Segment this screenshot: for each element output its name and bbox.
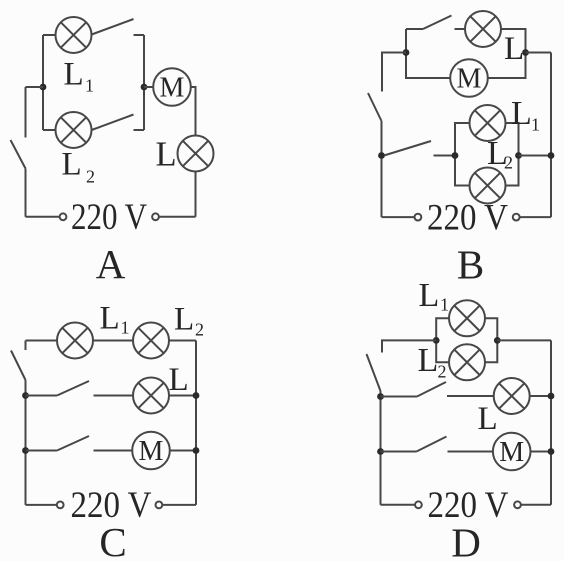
node: left junction	[40, 84, 47, 91]
lamp L	[465, 11, 501, 47]
wire: L1 left lead	[43, 34, 56, 36]
switch S11 blade (lamp L branch, open)	[417, 382, 446, 397]
motor M	[450, 59, 488, 97]
wire: right junction to right rail	[526, 52, 552, 54]
wire: node to main switch corner	[382, 53, 406, 92]
svg-text:L: L	[504, 31, 524, 67]
node: right rail junction	[548, 152, 555, 159]
wire: node down to motor branch	[406, 53, 451, 79]
wire: bottom left rail	[26, 504, 57, 506]
node: right junction	[141, 84, 148, 91]
wire: lamp group left bracket	[455, 123, 470, 186]
wire: left vertical L1-node-L2	[42, 35, 44, 130]
switch S10 blade (main, open)	[367, 354, 381, 391]
wire: lamp group to right rail	[519, 155, 552, 157]
svg-text:220 V: 220 V	[427, 198, 508, 239]
wire: bottom right rail	[521, 504, 551, 506]
svg-text:L: L	[156, 136, 177, 174]
wire: S12 contact to motor	[448, 451, 494, 453]
svg-text:C: C	[99, 519, 126, 561]
wire: left rail down to source	[380, 391, 382, 505]
terminal: source right	[513, 214, 520, 221]
wire: lamp to right corner, down	[501, 29, 526, 53]
node: right rail junction row 3	[548, 448, 555, 455]
svg-text:2: 2	[195, 320, 204, 340]
node: lamp group right junction	[494, 337, 501, 344]
wire: lamp L2 to right rail	[169, 340, 196, 342]
wire: row2 node to switch pivot	[381, 396, 418, 398]
lamp L1	[57, 323, 93, 359]
svg-text:L: L	[418, 342, 439, 379]
lamp L2	[449, 344, 485, 380]
svg-text:M: M	[160, 72, 185, 103]
svg-text:L: L	[100, 301, 120, 337]
node: right rail junction row 3	[193, 447, 200, 454]
node: left rail junction row 2	[377, 393, 384, 400]
wire: S2 fixed contact stub	[134, 129, 145, 131]
wire: row3 node to switch pivot	[26, 450, 58, 452]
wire: left rail down to source	[25, 380, 27, 505]
lamp L2	[470, 168, 506, 204]
terminal: source right	[156, 502, 163, 509]
terminal: source left	[415, 501, 422, 508]
wire: between lamp L1 and L2	[93, 340, 134, 342]
svg-text:1: 1	[85, 76, 94, 96]
wire: main switch down to source	[25, 169, 27, 217]
wire: bottom right rail	[520, 216, 551, 218]
lamp L	[178, 136, 214, 172]
lamp L2	[56, 112, 92, 148]
svg-text:2: 2	[504, 153, 513, 173]
wire: motor to right rail	[170, 450, 197, 452]
wire: lamp group to main switch corner	[382, 340, 436, 352]
svg-text:1: 1	[440, 295, 449, 315]
switch S2 blade (L2 branch, open)	[92, 115, 134, 131]
node: left rail junction row 3	[22, 447, 29, 454]
wire: bottom left rail	[26, 216, 60, 218]
wire: node to motor	[144, 86, 154, 88]
svg-text:1: 1	[121, 318, 130, 338]
wire: row2 node to switch pivot	[26, 395, 58, 397]
wire: main switch upper stub	[25, 341, 27, 351]
wire: bottom right rail	[159, 216, 196, 218]
svg-text:M: M	[499, 437, 524, 468]
node: right rail junction row 2	[548, 393, 555, 400]
motor M	[153, 68, 191, 106]
wire: S8 contact to lamp L	[94, 395, 134, 397]
switch S9 blade (motor branch, open)	[57, 436, 89, 451]
wire: motor to right corner, up	[488, 53, 526, 79]
wire: right rail	[550, 340, 552, 504]
node: lamp group left junction	[433, 337, 440, 344]
wire: motor to right rail	[530, 451, 551, 453]
wire: right rail	[195, 341, 197, 505]
wire: top left corner to lamp L1	[26, 340, 58, 342]
lamp L1	[56, 17, 92, 53]
wire: lamp group right bracket	[505, 123, 518, 186]
wire: lamp L down to source	[195, 171, 197, 217]
switch S6 blade (lamp group branch, open)	[384, 141, 431, 156]
wire: lamp group to right rail	[497, 339, 551, 341]
wire: lamp group right bracket	[485, 318, 498, 362]
wire: S1 fixed contact stub	[134, 34, 145, 36]
node: lamp group left junction	[452, 152, 459, 159]
svg-text:A: A	[96, 241, 126, 287]
terminal: source right	[152, 213, 159, 220]
switch S7 blade (main, open)	[11, 351, 26, 381]
wire: right vertical rail of parallel pair	[143, 35, 145, 130]
motor M	[132, 432, 170, 470]
lamp L	[494, 378, 530, 414]
svg-text:M: M	[457, 63, 482, 94]
wire: node to main switch	[26, 86, 44, 88]
svg-text:L: L	[174, 302, 194, 338]
svg-text:2: 2	[438, 362, 447, 382]
wire: S9 contact to motor	[94, 450, 133, 452]
terminal: source left	[60, 213, 67, 220]
wire: main switch upper stub	[25, 87, 27, 138]
wire: bottom left rail	[381, 504, 416, 506]
svg-text:L: L	[169, 362, 189, 398]
wire: row3 node to switch pivot	[381, 451, 417, 453]
svg-text:2: 2	[86, 167, 95, 187]
terminal: source left	[57, 502, 64, 509]
motor M	[493, 433, 531, 471]
wire: L2 left lead	[43, 129, 56, 131]
lamp L1	[449, 300, 485, 336]
svg-text:L: L	[478, 401, 498, 437]
svg-text:L: L	[62, 147, 82, 183]
node: lamp group right junction	[515, 152, 522, 159]
svg-text:L: L	[64, 57, 84, 93]
wire: node up to top branch	[405, 29, 407, 53]
switch S12 blade (motor branch, open)	[417, 437, 447, 452]
wire: bottom right rail	[162, 504, 196, 506]
switch S5 blade (main, open)	[368, 93, 382, 121]
wire: lamp L to right rail	[529, 395, 551, 397]
wire: right rail	[550, 53, 552, 218]
svg-text:1: 1	[531, 115, 540, 135]
svg-text:M: M	[139, 436, 164, 467]
wire: lamp L to right rail	[169, 395, 196, 397]
node: right rail junction row 2	[193, 392, 200, 399]
svg-text:L: L	[419, 277, 440, 314]
wire: motor to corner and down	[191, 87, 196, 136]
wire: S11 contact to lamp L	[447, 395, 494, 397]
wire: switch contact to lamp	[455, 28, 466, 30]
node: left rail junction row 3	[377, 448, 384, 455]
node: left rail junction row 2	[22, 392, 29, 399]
switch S4 blade (lamp L branch, open)	[423, 16, 452, 30]
wire: S6 contact to lamp group	[434, 155, 456, 157]
svg-text:220 V: 220 V	[71, 197, 147, 238]
node: right junction of top group	[522, 49, 529, 56]
lamp L2	[133, 323, 169, 359]
node: left rail junction	[378, 152, 385, 159]
terminal: source left	[415, 214, 422, 221]
switch S1 blade (L1 branch, open)	[92, 19, 134, 35]
node: left junction of top group	[403, 49, 410, 56]
wire: left rail down to source	[381, 121, 383, 217]
lamp L1	[470, 105, 506, 141]
switch S3 blade (main, open)	[11, 140, 26, 169]
wire: lamp group left bracket	[436, 318, 449, 362]
wire: bottom left rail	[382, 216, 415, 218]
lamp L	[133, 378, 169, 414]
wire: top branch to switch pivot	[406, 28, 423, 30]
switch S8 blade (lamp L branch, open)	[57, 381, 89, 396]
terminal: source right	[514, 501, 521, 508]
svg-text:B: B	[457, 242, 484, 288]
svg-text:L: L	[511, 95, 532, 132]
svg-text:D: D	[451, 520, 481, 561]
